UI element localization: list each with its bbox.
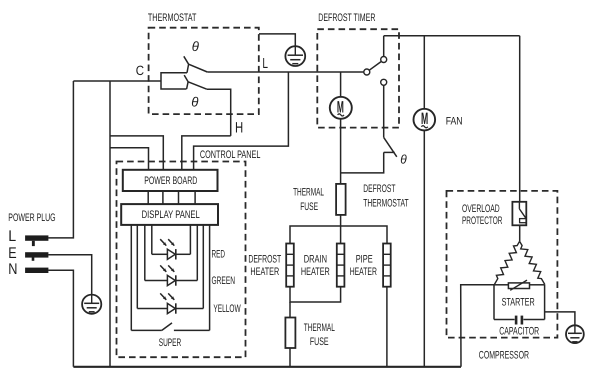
earth symbol compressor [566, 325, 584, 343]
svg-text:DEFROST TIMER: DEFROST TIMER [318, 12, 375, 24]
svg-text:STARTER: STARTER [502, 296, 535, 308]
earth symbol thermostat [285, 46, 305, 66]
wire defrost thermostat to junction [341, 152, 384, 173]
overload protector [512, 202, 526, 226]
svg-text:POWER PLUG: POWER PLUG [8, 212, 55, 224]
svg-text:H: H [235, 119, 243, 136]
board connector 1 [147, 191, 149, 204]
bottom bus N [73, 366, 461, 368]
svg-text:FAN: FAN [446, 115, 463, 127]
thermal fuse top rect [336, 184, 346, 215]
svg-text:E: E [8, 245, 16, 262]
wire N to bottom bus [48, 270, 73, 367]
wire heater bottoms link [290, 287, 341, 302]
timer blade [369, 61, 381, 70]
capacitor C1 [516, 316, 522, 325]
super switch row [131, 329, 162, 331]
svg-text:θ: θ [191, 94, 199, 109]
defrost thermostat blade [384, 137, 397, 156]
earth symbol E [82, 295, 101, 314]
svg-text:GREEN: GREEN [212, 275, 236, 287]
svg-text:L: L [262, 56, 268, 72]
wire L from plug to riser [48, 81, 73, 238]
wire green left [144, 225, 146, 281]
svg-text:DEFROST: DEFROST [363, 183, 395, 195]
svg-text:THERMAL: THERMAL [304, 322, 335, 334]
wire H contact down [207, 89, 231, 136]
wire super right [209, 225, 211, 331]
fan motor M2 [414, 109, 436, 131]
svg-text:θ: θ [400, 152, 407, 166]
board connector 4 [194, 191, 196, 204]
svg-text:HEATER: HEATER [350, 266, 377, 278]
wire red left [151, 225, 153, 254]
wire compressor feed drop [519, 36, 521, 202]
heater top bus [290, 226, 387, 244]
svg-text:PROTECTOR: PROTECTOR [462, 215, 502, 227]
LED yellow [167, 303, 175, 313]
svg-text:N: N [8, 261, 17, 278]
timer upper contact [381, 57, 387, 63]
svg-text:DISPLAY PANEL: DISPLAY PANEL [142, 209, 200, 221]
timer lower contact [381, 79, 387, 85]
wire green right [196, 225, 198, 281]
super switch blade [162, 323, 172, 331]
timer motor stem [340, 72, 342, 97]
plug pin tick 1 [32, 241, 35, 246]
wire yellow left [136, 225, 138, 309]
svg-text:RED: RED [212, 249, 226, 261]
thermostat dashed box [149, 28, 259, 114]
timer common contact [364, 69, 370, 75]
plug pin tick 2 [32, 258, 35, 261]
motor winding right [520, 241, 545, 284]
wire L main feed to defrost timer [207, 71, 363, 73]
wire C feed [73, 80, 161, 82]
svg-text:FUSE: FUSE [300, 201, 318, 213]
thermal fuse bottom rect [285, 318, 295, 349]
wire mid heater drop [340, 226, 342, 244]
wire timer upper contact riser [383, 36, 385, 57]
starter PTC [508, 280, 529, 290]
wire red row [152, 253, 168, 255]
control panel dashed box [117, 162, 246, 358]
svg-text:POWER BOARD: POWER BOARD [144, 175, 197, 187]
defrost heater [286, 244, 294, 287]
wire super left [130, 225, 132, 331]
defrost timer dashed box [317, 29, 399, 127]
wire C tap down to bus [109, 81, 111, 367]
svg-text:SUPER: SUPER [159, 337, 182, 349]
wire branch B to power board [110, 148, 149, 170]
motor winding left [494, 241, 519, 284]
svg-text:C: C [136, 63, 145, 78]
wire L branch to power board [194, 72, 289, 170]
svg-text:YELLOW: YELLOW [213, 303, 241, 315]
thermostat switch blade upper [184, 56, 208, 73]
wire yellow row [137, 308, 167, 310]
svg-text:FUSE: FUSE [310, 336, 329, 348]
svg-text:CONTROL PANEL: CONTROL PANEL [200, 149, 261, 161]
plug blade N [25, 268, 48, 273]
wire E to earth [48, 255, 91, 295]
compressor dashed box [447, 191, 558, 338]
svg-text:HEATER: HEATER [301, 266, 330, 278]
wire fuse bottom to bus [289, 348, 291, 367]
wire bus to starter [461, 285, 494, 367]
control panel label [199, 150, 262, 160]
defrost thermostat contact [384, 151, 395, 153]
svg-text:DEFROST: DEFROST [248, 253, 281, 265]
power board [123, 170, 218, 191]
plug blade L [25, 235, 48, 240]
svg-text:L: L [8, 228, 16, 245]
LED red [167, 249, 175, 259]
thermostat switch blade lower [184, 75, 207, 89]
svg-text:PIPE: PIPE [356, 253, 373, 265]
board connector 2 [162, 191, 164, 204]
wire pipe heater to bus [386, 287, 388, 367]
LED green [167, 275, 175, 285]
wire top feed to fan and compressor [384, 35, 520, 37]
wire timer motor down to thermal fuse [340, 118, 342, 184]
wire branch A to power board [110, 136, 163, 170]
svg-text:θ: θ [192, 39, 200, 54]
wire yellow right [202, 225, 204, 309]
svg-text:THERMOSTAT: THERMOSTAT [148, 12, 197, 24]
svg-text:DRAIN: DRAIN [304, 253, 327, 265]
wire green row [145, 280, 168, 282]
wire starter to earth [545, 312, 575, 325]
board connector 3 [178, 191, 180, 204]
starter box [494, 285, 545, 320]
thermostat common stub [161, 73, 187, 89]
wire PE stub to earth [259, 34, 295, 46]
wire timer lower contact drop [383, 85, 385, 137]
wire left heater to thermal fuse bottom [289, 302, 291, 318]
wire H branch to power board [182, 136, 231, 170]
timer motor M1 [330, 97, 352, 119]
wire fuse to heater bus [340, 215, 342, 226]
pipe heater [383, 244, 391, 287]
drain heater [337, 244, 345, 287]
svg-text:THERMAL: THERMAL [293, 187, 324, 199]
svg-text:COMPRESSOR: COMPRESSOR [479, 350, 529, 362]
wire fan drop [423, 36, 425, 109]
svg-text:THERMOSTAT: THERMOSTAT [363, 197, 409, 209]
plug blade E [25, 252, 48, 257]
wire red right [189, 225, 191, 254]
svg-text:HEATER: HEATER [250, 266, 279, 278]
display panel [121, 204, 218, 225]
wire fan to bus [423, 130, 425, 366]
svg-text:CAPACITOR: CAPACITOR [499, 325, 539, 337]
wire protector to windings [519, 225, 521, 241]
svg-text:OVERLOAD: OVERLOAD [462, 203, 500, 215]
